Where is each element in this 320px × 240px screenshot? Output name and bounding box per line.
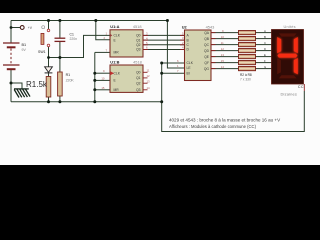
svg-text:A: A [264, 29, 266, 33]
svg-text:Q3: Q3 [136, 48, 141, 52]
svg-text:QC: QC [204, 43, 210, 47]
svg-text:F: F [264, 59, 266, 63]
svg-text:Dizaines: Dizaines [281, 92, 298, 97]
svg-text:CLK: CLK [114, 34, 121, 38]
svg-text:G: G [264, 65, 266, 69]
svg-text:4029 et 4543 : broche 8 à la m: 4029 et 4543 : broche 8 à la masse et br… [169, 118, 281, 123]
svg-text:13: 13 [147, 79, 151, 83]
svg-text:R2 à R8: R2 à R8 [240, 73, 252, 77]
svg-text:12: 12 [221, 47, 225, 51]
svg-text:Q2: Q2 [136, 43, 141, 47]
svg-text:QE: QE [204, 55, 210, 59]
svg-text:SW1: SW1 [38, 50, 46, 54]
svg-text:10: 10 [101, 76, 105, 80]
svg-text:MR: MR [114, 51, 120, 55]
svg-text:Q1: Q1 [136, 38, 141, 42]
svg-text:220K: 220K [66, 78, 75, 82]
svg-text:14: 14 [147, 86, 151, 90]
svg-text:9V: 9V [22, 48, 27, 52]
svg-text:CLK: CLK [114, 71, 121, 75]
svg-text:QA: QA [204, 31, 210, 35]
svg-text:11: 11 [147, 69, 150, 73]
svg-text:Q0: Q0 [136, 34, 141, 38]
svg-text:Q2: Q2 [136, 81, 141, 85]
svg-text:U1:A: U1:A [110, 24, 119, 29]
svg-text:4543: 4543 [206, 25, 215, 30]
svg-text:E: E [264, 53, 266, 57]
svg-text:Unités: Unités [284, 24, 296, 29]
svg-text:Q3: Q3 [136, 88, 141, 92]
svg-text:15: 15 [101, 86, 105, 90]
svg-text:U1:B: U1:B [110, 60, 119, 65]
svg-text:15: 15 [221, 59, 225, 63]
svg-text:D: D [264, 47, 266, 51]
svg-text:QB: QB [204, 37, 210, 41]
svg-text:Afficheurs : Modules à cathode: Afficheurs : Modules à cathode commune (… [169, 124, 257, 129]
svg-text:R1: R1 [66, 73, 71, 77]
svg-text:B1: B1 [22, 43, 27, 47]
svg-text:CLK: CLK [187, 61, 194, 65]
svg-text:4518: 4518 [133, 24, 142, 29]
svg-text:QG: QG [204, 67, 210, 71]
svg-text:CC: CC [298, 85, 304, 89]
svg-text:QF: QF [204, 61, 209, 65]
svg-text:4518: 4518 [133, 60, 142, 65]
svg-text:C1: C1 [70, 32, 74, 36]
svg-text:Q0: Q0 [136, 71, 141, 75]
svg-text:QD: QD [204, 49, 210, 53]
svg-text:10: 10 [221, 35, 225, 39]
svg-text:Q1: Q1 [136, 76, 141, 80]
svg-text:U2: U2 [182, 25, 188, 30]
svg-text:C: C [264, 41, 266, 45]
svg-text:220n: 220n [70, 37, 78, 41]
svg-text:MR: MR [114, 88, 120, 92]
svg-text:14: 14 [221, 65, 225, 69]
svg-text:12: 12 [147, 74, 151, 78]
svg-text:7 x 330: 7 x 330 [240, 77, 251, 81]
svg-text:R1.5k: R1.5k [26, 80, 48, 89]
svg-text:BI: BI [187, 71, 190, 75]
svg-text:11: 11 [221, 41, 224, 45]
svg-text:B: B [264, 35, 266, 39]
svg-text:13: 13 [221, 53, 225, 57]
